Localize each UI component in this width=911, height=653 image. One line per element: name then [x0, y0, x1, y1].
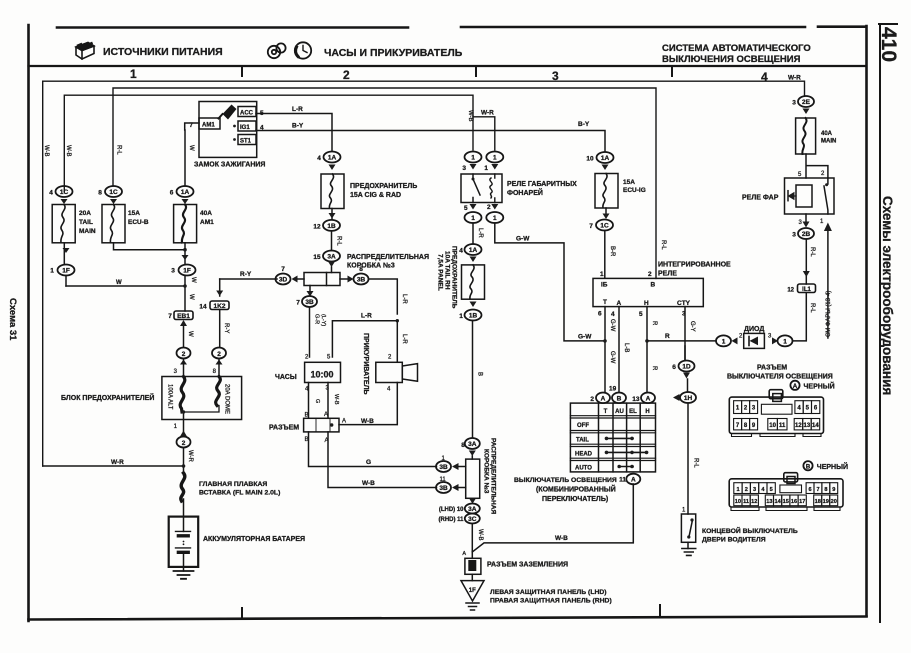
label B black	[803, 461, 848, 471]
relay bottom pins	[799, 219, 825, 226]
svg-text:W-B: W-B	[333, 394, 339, 405]
terminal ST1	[233, 135, 256, 145]
connector 1(1) relay top right	[484, 152, 503, 173]
svg-text:1: 1	[471, 155, 475, 162]
fuse block box	[162, 377, 242, 420]
svg-text:1F: 1F	[183, 268, 191, 275]
svg-text:ВЫКЛЮЧЕНИЯ ОСВЕЩЕНИЯ: ВЫКЛЮЧЕНИЯ ОСВЕЩЕНИЯ	[662, 54, 801, 65]
svg-text:L-R: L-R	[401, 294, 407, 304]
svg-text:W-B: W-B	[362, 480, 375, 487]
CLOCKAREA	[269, 152, 437, 488]
svg-text:4: 4	[797, 406, 801, 412]
distribution box no3 tall	[466, 459, 480, 498]
svg-text:1: 1	[722, 339, 726, 346]
LEFTFUSES	[49, 123, 304, 377]
svg-text:(RHD) 11: (RHD) 11	[438, 517, 464, 523]
svg-text:10:00: 10:00	[310, 370, 333, 380]
svg-text:W-B: W-B	[477, 529, 483, 541]
connector 4(1H)	[673, 379, 699, 514]
svg-text:G-W: G-W	[516, 236, 530, 243]
svg-text:G-Y: G-Y	[689, 321, 695, 332]
svg-text:РАЗЪЕМ ЗАЗЕМЛЕНИЯ: РАЗЪЕМ ЗАЗЕМЛЕНИЯ	[487, 562, 568, 569]
svg-text:G: G	[314, 399, 320, 403]
svg-text:2: 2	[745, 487, 748, 493]
svg-text:15A: 15A	[128, 210, 140, 217]
fusible link 20A DOME	[185, 377, 230, 415]
svg-text:11: 11	[779, 423, 786, 429]
svg-text:40A: 40A	[200, 210, 212, 217]
wire L-R to lighter	[397, 321, 407, 362]
svg-text:20: 20	[831, 499, 837, 505]
svg-text:2B: 2B	[802, 231, 811, 238]
svg-text:РАЗЪЕМ: РАЗЪЕМ	[757, 365, 787, 372]
svg-text:5: 5	[464, 205, 468, 212]
svg-text:9: 9	[832, 487, 835, 493]
svg-text:3: 3	[768, 334, 772, 340]
svg-text:4: 4	[387, 387, 391, 393]
svg-text:ECU-IG: ECU-IG	[623, 187, 646, 194]
connector 4(1A) tail fuse	[459, 244, 481, 262]
svg-text:19: 19	[823, 499, 829, 505]
svg-text:2: 2	[305, 355, 309, 361]
svg-text:ГЛАВНАЯ ПЛАВКАЯ: ГЛАВНАЯ ПЛАВКАЯ	[199, 481, 267, 488]
svg-text:1A: 1A	[469, 247, 478, 254]
connector 3(1F)	[171, 265, 196, 284]
svg-text:1: 1	[736, 487, 739, 493]
svg-text:12: 12	[751, 499, 757, 505]
wire razem A W-B down	[328, 432, 437, 488]
svg-text:1H: 1H	[684, 395, 693, 402]
wire CTY output	[685, 307, 695, 361]
svg-text:1B: 1B	[327, 223, 336, 230]
FUSEBLOCK	[61, 377, 305, 579]
svg-text:2: 2	[343, 68, 350, 82]
key symbol	[223, 105, 237, 120]
svg-text:W-B: W-B	[361, 418, 374, 425]
svg-text:РАСПРЕДЕЛИТЕЛЬНАЯ: РАСПРЕДЕЛИТЕЛЬНАЯ	[347, 254, 429, 261]
svg-text:8: 8	[744, 423, 748, 429]
wire W bus 1F row	[66, 276, 194, 312]
svg-text:12: 12	[787, 288, 794, 294]
svg-text:ЗАМОК ЗАЖИГАНИЯ: ЗАМОК ЗАЖИГАНИЯ	[194, 162, 265, 169]
svg-text:ПРЕДОХРАНИТЕЛЬ: ПРЕДОХРАНИТЕЛЬ	[451, 246, 458, 309]
headlight relay	[785, 178, 835, 214]
wire A output	[619, 307, 629, 392]
svg-text:5: 5	[327, 355, 331, 361]
svg-text:L-R: L-R	[292, 106, 303, 113]
svg-text:1: 1	[471, 215, 475, 222]
svg-text:13: 13	[766, 499, 772, 505]
wire W-B branch to light switch	[472, 484, 633, 552]
svg-text:6: 6	[809, 487, 812, 493]
svg-text:14: 14	[199, 304, 207, 311]
wire: W-R main bus (battery riser, top run, drop to 40A MAIN)	[43, 81, 805, 466]
svg-text:A: A	[631, 477, 636, 484]
INTRELAY	[514, 152, 806, 503]
svg-text:2: 2	[744, 406, 748, 412]
svg-text:8: 8	[824, 487, 827, 493]
connector 8(3A)	[461, 438, 480, 459]
svg-text:1: 1	[459, 313, 463, 320]
svg-text:9: 9	[752, 423, 756, 429]
fuse 15A CIG & RAD	[321, 174, 344, 209]
BUSES	[43, 75, 805, 467]
svg-text:1C: 1C	[60, 189, 69, 196]
svg-text:B: B	[806, 463, 811, 470]
svg-text:ACC: ACC	[240, 111, 254, 117]
svg-text:40A: 40A	[821, 131, 833, 137]
label A black	[790, 381, 834, 391]
svg-text:КОРОБКА №3: КОРОБКА №3	[347, 262, 395, 270]
svg-text:G-W: G-W	[609, 319, 615, 332]
svg-text:W-R: W-R	[481, 110, 494, 117]
column ticks top	[242, 66, 672, 76]
svg-text:1: 1	[484, 165, 488, 172]
wire R-L to IL1	[803, 239, 815, 284]
clock icon	[295, 42, 311, 58]
svg-text:A: A	[793, 383, 798, 390]
svg-text:G-R: G-R	[314, 314, 320, 324]
svg-text:ИСТОЧНИКИ ПИТАНИЯ: ИСТОЧНИКИ ПИТАНИЯ	[103, 46, 223, 58]
svg-text:13: 13	[632, 396, 640, 403]
svg-text:ЛЕВАЯ ЗАЩИТНАЯ ПАНЕЛЬ (LHD): ЛЕВАЯ ЗАЩИТНАЯ ПАНЕЛЬ (LHD)	[490, 589, 607, 596]
wire ACC L-R	[256, 106, 332, 151]
wire G-W relay to R line	[495, 223, 605, 341]
svg-text:2E: 2E	[802, 99, 811, 106]
svg-text:6: 6	[672, 364, 676, 371]
svg-text:5: 5	[770, 487, 773, 493]
RIGHTCOL	[672, 96, 848, 555]
wire: ECU-B bus to integrated relay B	[113, 88, 656, 278]
connector 8(3B) right	[340, 266, 407, 314]
svg-text:R-Y: R-Y	[240, 271, 252, 278]
svg-text:(LHD) 10: (LHD) 10	[439, 507, 464, 513]
svg-text:B: B	[477, 372, 483, 376]
svg-text:СИСТЕМА АВТОМАТИЧЕСКОГО: СИСТЕМА АВТОМАТИЧЕСКОГО	[662, 43, 811, 54]
svg-text:19: 19	[609, 386, 617, 393]
svg-text:11: 11	[743, 499, 749, 505]
svg-text:W-B: W-B	[43, 145, 49, 157]
distribution box no3	[304, 273, 340, 286]
border bottom	[29, 617, 867, 620]
svg-text:HEAD: HEAD	[575, 452, 593, 458]
svg-text:7,5A PANEL: 7,5A PANEL	[437, 254, 444, 291]
svg-text:15: 15	[783, 499, 789, 505]
svg-text:A: A	[601, 395, 606, 402]
svg-text:W: W	[116, 280, 122, 286]
svg-text:6: 6	[170, 190, 174, 197]
svg-text:10: 10	[735, 499, 741, 505]
svg-text:5: 5	[798, 172, 802, 178]
connector 3(2E)	[792, 96, 814, 114]
svg-text:R-L: R-L	[809, 303, 815, 313]
wire H output	[645, 307, 657, 392]
wires fuse to relay pins	[798, 154, 828, 178]
connector 14(1K2)	[199, 279, 229, 347]
svg-text:3: 3	[752, 406, 756, 412]
svg-text:Схемы электрооборудования: Схемы электрооборудования	[880, 196, 895, 395]
svg-text:W: W	[188, 294, 194, 300]
svg-text:13: 13	[804, 423, 811, 429]
wire: tap to taillight relay pin1	[473, 117, 495, 150]
svg-text:5: 5	[806, 406, 810, 412]
border right	[865, 26, 868, 616]
svg-text:A: A	[342, 419, 346, 425]
wire: W-R bottom run battery to fuse links	[43, 465, 184, 467]
svg-text:КОРОБКА №3: КОРОБКА №3	[483, 449, 490, 494]
svg-text:A: A	[646, 395, 651, 402]
svg-text:3A: 3A	[468, 506, 477, 513]
connector 7(3B) bottom	[296, 286, 326, 358]
svg-text:4: 4	[761, 70, 768, 84]
svg-text:ДВЕРИ ВОДИТЕЛЯ: ДВЕРИ ВОДИТЕЛЯ	[702, 537, 766, 544]
svg-text:TAIL: TAIL	[79, 219, 93, 226]
fuse 40A AM1	[174, 205, 215, 243]
connector 7(1C)	[589, 208, 615, 278]
svg-text:ЧАСЫ: ЧАСЫ	[275, 374, 297, 381]
svg-text:W: W	[188, 145, 194, 151]
header band rule	[29, 65, 867, 67]
svg-text:6: 6	[814, 406, 818, 412]
svg-text:1: 1	[783, 339, 787, 346]
svg-text:3: 3	[792, 100, 796, 107]
diode connector 1 left	[716, 334, 743, 347]
TAILRELAY	[436, 152, 633, 611]
svg-text:B-Y: B-Y	[292, 123, 304, 130]
svg-text:1A: 1A	[328, 155, 337, 162]
terminal IG1	[233, 121, 264, 132]
svg-text:ВЫКЛЮЧАТЕЛЬ ОСВЕЩЕНИЯ: ВЫКЛЮЧАТЕЛЬ ОСВЕЩЕНИЯ	[514, 477, 617, 484]
svg-text:TAIL: TAIL	[576, 438, 589, 444]
svg-text:РЕЛЕ ГАБАРИТНЫХ: РЕЛЕ ГАБАРИТНЫХ	[507, 181, 577, 188]
svg-text:РЕЛЕ: РЕЛЕ	[658, 271, 677, 278]
junction AM1/ECU-B	[182, 243, 189, 265]
svg-text:OFF: OFF	[577, 423, 589, 429]
svg-text:L-R: L-R	[477, 228, 483, 238]
svg-text:1B: 1B	[469, 313, 478, 320]
svg-text:15A CIG & RAD: 15A CIG & RAD	[350, 192, 401, 199]
svg-text:4: 4	[459, 248, 463, 255]
svg-text:4: 4	[317, 155, 321, 162]
svg-text:4: 4	[611, 311, 615, 318]
battery	[169, 499, 199, 571]
svg-text:3: 3	[799, 220, 803, 226]
connector 2(1) bottom right	[486, 204, 503, 223]
svg-text:1C: 1C	[109, 189, 118, 196]
connector circle 2 ALT	[174, 348, 191, 377]
svg-text:G: G	[366, 459, 371, 466]
connector 12(IL1)	[787, 284, 815, 313]
svg-text:АККУМУЛЯТОРНАЯ БАТАРЕЯ: АККУМУЛЯТОРНАЯ БАТАРЕЯ	[203, 536, 305, 543]
svg-text:R-L: R-L	[116, 145, 122, 155]
svg-text:1F: 1F	[62, 268, 70, 275]
svg-text:H: H	[645, 409, 649, 415]
svg-text:W-B: W-B	[65, 145, 71, 157]
connector 7(EB1)	[168, 311, 193, 347]
wire T output	[603, 307, 615, 392]
fuse 15A ECU-IG	[595, 174, 646, 209]
svg-text:ВСТАВКА (FL MAIN 2.0L): ВСТАВКА (FL MAIN 2.0L)	[199, 490, 280, 497]
clock	[305, 362, 341, 382]
diode connector 1 right	[768, 293, 806, 346]
wire: TAIL MAIN bus to taillight relay pin3	[64, 95, 473, 191]
connector 15(3A)	[313, 251, 340, 273]
svg-text:РЕЛЕ ФАР: РЕЛЕ ФАР	[742, 195, 779, 202]
svg-text:РАСПРЕДЕЛИТЕЛЬНАЯ: РАСПРЕДЕЛИТЕЛЬНАЯ	[490, 438, 497, 514]
svg-text:W: W	[187, 331, 193, 337]
svg-text:4: 4	[49, 190, 53, 197]
svg-text:R: R	[651, 366, 657, 371]
wire clock pin3	[328, 383, 339, 419]
svg-text:B: B	[305, 413, 309, 419]
svg-text:R: R	[651, 321, 657, 326]
svg-text:3A: 3A	[468, 441, 477, 448]
column ticks bottom	[242, 605, 660, 619]
svg-text:W: W	[190, 277, 196, 283]
fuse block out pin 1	[174, 410, 187, 436]
svg-text:8: 8	[461, 442, 465, 449]
svg-text:2: 2	[648, 271, 652, 278]
svg-text:R-L: R-L	[809, 247, 815, 257]
connector 3(1) relay top left	[462, 152, 481, 173]
svg-text:W-B: W-B	[555, 535, 568, 542]
svg-text:ПЕРЕКЛЮЧАТЕЛЬ): ПЕРЕКЛЮЧАТЕЛЬ)	[542, 496, 608, 503]
connector RAZEM clock	[304, 412, 375, 444]
ignition switch U: box	[199, 102, 257, 158]
svg-text:18: 18	[815, 499, 821, 505]
svg-text:100A ALT: 100A ALT	[167, 384, 173, 410]
connector 11(3B) left lower	[436, 477, 466, 493]
wire razem B G down	[309, 432, 437, 467]
svg-text:17: 17	[799, 499, 805, 505]
svg-text:15: 15	[313, 254, 321, 261]
connector (B) table	[612, 393, 626, 404]
svg-text:MAIN: MAIN	[821, 139, 836, 145]
svg-text:3B: 3B	[305, 299, 314, 306]
connector 11(A) table bottom	[619, 474, 640, 485]
connector 4(1C)	[49, 186, 72, 204]
svg-text:A: A	[324, 412, 328, 418]
svg-text:ВЫКЛЮЧАТЕЛЯ ОСВЕЩЕНИЯ: ВЫКЛЮЧАТЕЛЯ ОСВЕЩЕНИЯ	[727, 374, 833, 381]
svg-text:8: 8	[213, 369, 217, 375]
svg-text:2: 2	[487, 204, 491, 211]
svg-text:1D: 1D	[682, 364, 691, 371]
connector 12(1B)	[313, 209, 341, 251]
svg-text:ФОНАРЕЙ: ФОНАРЕЙ	[507, 188, 543, 197]
svg-text:R: R	[665, 333, 670, 340]
svg-text:2: 2	[590, 396, 594, 403]
svg-text:1A: 1A	[181, 189, 190, 196]
svg-text:1F: 1F	[469, 588, 476, 594]
HEADER	[29, 42, 867, 66]
svg-text:7: 7	[816, 487, 819, 493]
svg-text:EB1: EB1	[177, 313, 190, 320]
svg-text:CTY: CTY	[677, 300, 691, 307]
svg-text:20A: 20A	[79, 210, 91, 217]
svg-text:3C: 3C	[468, 516, 477, 523]
svg-text:1: 1	[820, 219, 824, 225]
svg-text:2: 2	[182, 351, 186, 358]
svg-text:5: 5	[639, 311, 643, 318]
svg-text:Схема 31: Схема 31	[7, 298, 18, 341]
svg-text:(L-Y): (L-Y)	[320, 314, 326, 326]
contact bar AUTO	[618, 466, 633, 468]
door switch	[681, 508, 695, 556]
svg-text:ПРАВАЯ ЗАЩИТНАЯ ПАНЕЛЬ (RHD): ПРАВАЯ ЗАЩИТНАЯ ПАНЕЛЬ (RHD)	[490, 598, 612, 605]
fuse 20A TAIL MAIN	[52, 205, 96, 243]
svg-text:7: 7	[589, 223, 593, 230]
wire IG1 B-Y	[256, 121, 605, 151]
svg-text:7: 7	[189, 122, 193, 129]
connector 10(1A) ECU-IG	[586, 152, 613, 170]
svg-text:AUTO: AUTO	[575, 466, 592, 472]
fuse 10A TAIL RH 7.5A PANEL	[462, 265, 485, 299]
svg-text:3: 3	[174, 369, 178, 375]
integrated relay box	[593, 271, 703, 318]
svg-text:1: 1	[50, 268, 54, 275]
svg-text:1C: 1C	[600, 223, 609, 230]
svg-text:1: 1	[682, 508, 686, 514]
svg-text:7: 7	[736, 423, 740, 429]
svg-text:EL: EL	[629, 409, 637, 415]
svg-text:8: 8	[359, 266, 363, 273]
ground connector box	[462, 551, 481, 574]
svg-text:B-Y: B-Y	[578, 121, 590, 128]
connector 6(1D)	[672, 346, 694, 379]
connector 1(3B) left	[436, 456, 466, 472]
connector circle 2 DOME	[212, 348, 226, 377]
contact bar TAIL	[606, 437, 633, 439]
connector 13(A) table	[632, 393, 655, 404]
margin rule	[879, 24, 881, 622]
svg-text:2: 2	[739, 334, 743, 340]
svg-text:3: 3	[753, 487, 756, 493]
svg-text:AM1: AM1	[200, 219, 214, 226]
svg-text:4: 4	[761, 487, 765, 493]
clock pins	[305, 355, 331, 393]
border top	[57, 25, 866, 28]
IGNITION	[189, 102, 605, 169]
svg-text:W-R: W-R	[187, 450, 193, 463]
margin top tick	[879, 23, 897, 25]
connector A drawing	[729, 390, 823, 437]
connector 8(1C)	[98, 186, 122, 204]
battery icon	[76, 43, 94, 60]
svg-text:MAIN: MAIN	[79, 228, 96, 235]
svg-text:L-R: L-R	[401, 334, 407, 344]
svg-text:R-L: R-L	[336, 236, 342, 246]
svg-text:11: 11	[619, 477, 626, 484]
svg-text:R-L: R-L	[693, 458, 699, 468]
svg-text:3A: 3A	[327, 254, 336, 261]
svg-text:A: A	[462, 551, 466, 557]
light switch table	[570, 403, 655, 472]
connector 1(1B) tail fuse out	[459, 302, 482, 438]
svg-text:3B: 3B	[357, 277, 366, 284]
svg-text:B: B	[651, 282, 656, 289]
connector 5(1) bottom left	[465, 204, 484, 244]
terminal ACC	[238, 107, 264, 118]
svg-text:2: 2	[821, 171, 825, 177]
svg-text:L-B: L-B	[623, 343, 629, 352]
svg-text:3: 3	[792, 232, 796, 239]
connector circle 2 main	[177, 437, 194, 476]
border left	[27, 25, 30, 621]
fuse 40A MAIN	[796, 118, 837, 154]
svg-text:1: 1	[493, 155, 497, 162]
svg-text:IL1: IL1	[802, 287, 811, 293]
svg-text:8: 8	[98, 190, 102, 197]
